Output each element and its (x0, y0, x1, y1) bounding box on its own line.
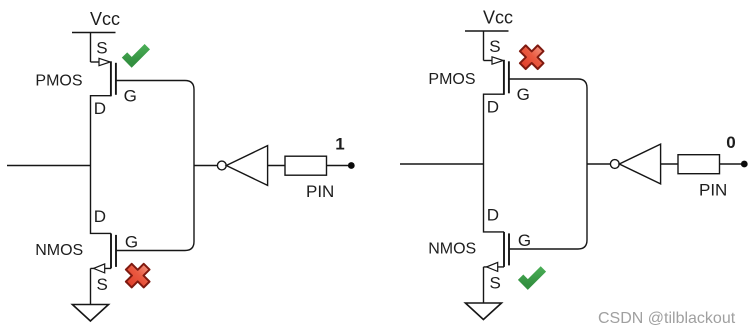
wire inverter to resistor (right) (661, 163, 678, 165)
Vcc power rail (left) (72, 32, 116, 34)
PMOS source arrow (right) (492, 57, 503, 64)
NMOS channel bar (left) (110, 233, 112, 268)
svg-text:G: G (517, 85, 530, 104)
NMOS source lead (left) (91, 267, 112, 269)
inverter triangle (left) (226, 146, 267, 186)
inverter triangle (right) (619, 144, 660, 184)
PMOS source lead (right) (484, 60, 493, 62)
pin terminal dot (left) (348, 162, 355, 169)
ground symbol (right) (465, 303, 501, 320)
svg-text:CSDN @tilblackout: CSDN @tilblackout (598, 310, 736, 327)
PMOS gate bar (right) (508, 61, 510, 93)
wire output to left edge (left) (7, 165, 91, 167)
svg-text:PMOS: PMOS (35, 73, 82, 90)
red cross at PMOS source (right) (514, 39, 550, 75)
svg-text:S: S (490, 274, 501, 293)
PMOS channel bar (right) (503, 60, 505, 95)
resistor box (left) (285, 156, 327, 175)
green check at NMOS source (right) (521, 269, 544, 285)
wire gate bus connecting PMOS and NMOS gates (left) (116, 81, 194, 251)
wire gate bus to inverter bubble (right) (587, 163, 610, 165)
svg-text:D: D (94, 99, 106, 118)
inverter bubble (left) (217, 161, 226, 170)
wire gate bus connecting PMOS and NMOS gates (right) (509, 79, 587, 249)
wire Vcc to PMOS source (left) (90, 33, 92, 63)
svg-text:G: G (518, 231, 531, 250)
wire NMOS source to ground (left) (90, 268, 92, 304)
Vcc power rail (right) (465, 30, 509, 32)
wire output node to NMOS drain (right) (484, 164, 505, 232)
svg-text:S: S (97, 275, 108, 294)
red cross at NMOS source (left) (120, 258, 156, 294)
svg-text:0: 0 (726, 133, 735, 152)
PMOS source lead (left) (91, 61, 100, 63)
svg-text:NMOS: NMOS (428, 241, 476, 258)
svg-text:PIN: PIN (306, 182, 334, 201)
svg-text:G: G (124, 87, 137, 106)
NMOS channel bar (right) (503, 232, 505, 267)
NMOS source arrow (left) (94, 264, 105, 273)
svg-text:S: S (96, 39, 107, 58)
NMOS source arrow (right) (487, 262, 498, 271)
PMOS gate bar (left) (115, 63, 117, 95)
wire PMOS drain to output node (left) (91, 96, 111, 166)
NMOS gate bar (right) (508, 233, 510, 265)
svg-text:D: D (487, 206, 499, 225)
wire output node to NMOS drain (left) (91, 166, 112, 234)
svg-text:Vcc: Vcc (483, 8, 513, 28)
PMOS source arrow (left) (99, 58, 110, 65)
svg-text:NMOS: NMOS (35, 242, 83, 259)
wire NMOS source to ground (right) (483, 267, 485, 303)
wire PMOS drain to output node (right) (484, 94, 504, 164)
svg-text:1: 1 (335, 134, 344, 153)
wire resistor to pin terminal (right) (720, 163, 742, 165)
wire output to left stub (right) (400, 163, 484, 165)
green check at PMOS source (left) (125, 47, 148, 63)
svg-text:D: D (94, 207, 106, 226)
svg-text:PMOS: PMOS (428, 71, 475, 88)
wire inverter to resistor (left) (268, 165, 285, 167)
svg-text:S: S (489, 37, 500, 56)
svg-text:PIN: PIN (699, 181, 727, 200)
NMOS gate bar (left) (115, 235, 117, 267)
wire resistor to pin terminal (left) (327, 165, 349, 167)
wire Vcc to PMOS source (right) (483, 31, 485, 61)
pin terminal dot (right) (741, 161, 748, 168)
NMOS source lead (right) (484, 266, 505, 268)
inverter bubble (right) (610, 160, 619, 169)
svg-text:G: G (125, 233, 138, 252)
svg-text:Vcc: Vcc (90, 9, 120, 29)
resistor box (right) (678, 155, 720, 174)
wire gate bus to inverter bubble (left) (194, 165, 217, 167)
svg-text:D: D (487, 97, 499, 116)
ground symbol (left) (72, 305, 108, 322)
PMOS channel bar (left) (110, 61, 112, 96)
